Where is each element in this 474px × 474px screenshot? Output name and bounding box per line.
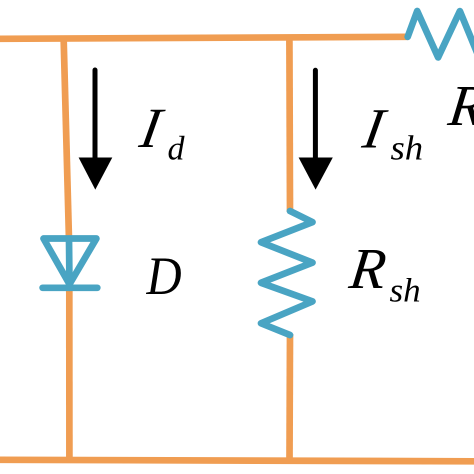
resistor R_sh zigzag [261, 211, 313, 335]
arrow current I_sh [299, 70, 333, 189]
svg-text:D: D [146, 247, 182, 307]
wire middle vertical (shunt branch, lower) [286, 334, 293, 461]
label D [146, 247, 182, 307]
wire left vertical (diode branch, upper) [64, 37, 69, 240]
label I_d [135, 97, 186, 167]
wire top horizontal [0, 37, 408, 39]
svg-text:d: d [168, 131, 186, 168]
label R (series, partially visible) [444, 73, 474, 138]
arrow current I_d [79, 70, 113, 190]
wire bottom horizontal [0, 460, 474, 462]
label R_sh [345, 236, 420, 309]
resistor R (series, partially visible) zigzag [408, 11, 474, 57]
wire left vertical (diode branch, lower) [66, 286, 73, 461]
diode D symbol [43, 239, 98, 288]
label I_sh [358, 98, 423, 167]
svg-text:sh: sh [390, 272, 421, 309]
wire middle vertical (shunt branch, upper) [286, 37, 293, 212]
svg-text:sh: sh [391, 128, 424, 167]
